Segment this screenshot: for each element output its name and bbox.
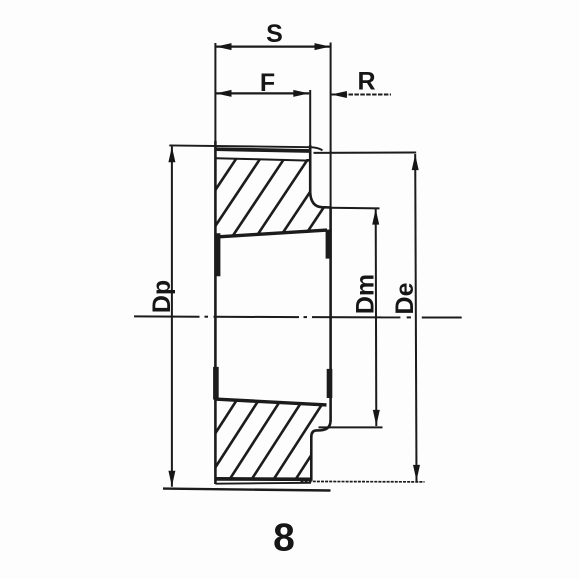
- svg-text:Dm: Dm: [352, 274, 380, 314]
- pulley bottom step face: [310, 436, 313, 481]
- wire right extension (S) / flange outer face: [330, 43, 332, 208]
- hatching lower section: [155, 368, 368, 494]
- arrowhead Dm top: [372, 209, 379, 225]
- wire De bottom extension: [301, 480, 425, 483]
- arrowhead Dm bottom: [373, 410, 380, 426]
- dimension R leader line: [331, 94, 391, 96]
- svg-text:8: 8: [273, 517, 295, 560]
- pulley bore taper line upper (thick): [217, 230, 327, 237]
- wire Dp bottom extension (long): [163, 489, 331, 491]
- wire Dm bottom extension: [319, 426, 383, 428]
- wire left extension / pulley left face: [214, 43, 216, 141]
- svg-text:R: R: [357, 68, 375, 96]
- arrowhead Dp top: [168, 147, 175, 163]
- arrowhead S right: [315, 43, 331, 50]
- arrowhead De bottom: [413, 465, 420, 481]
- arrowhead F right: [293, 90, 309, 97]
- pulley tooth face bottom (thick): [215, 477, 311, 481]
- dimension S line: [215, 45, 330, 47]
- svg-text:S: S: [266, 20, 283, 48]
- arrowhead R: [331, 91, 347, 98]
- pulley bore taper line lower (thick): [215, 399, 327, 405]
- hatching upper section: [150, 132, 398, 252]
- wire Dp top extension / pitch line: [169, 145, 322, 150]
- pulley rim inner line bottom: [215, 482, 311, 485]
- dimension De line: [415, 154, 416, 481]
- pulley tooth face top (thick): [215, 149, 310, 151]
- bushing edge bar lower-left: [213, 367, 219, 400]
- pulley top step fillet: [310, 193, 330, 208]
- dimension F line: [215, 92, 309, 94]
- dimension Dm line: [375, 209, 378, 426]
- arrowhead S left: [216, 43, 232, 50]
- wire Dm top extension: [331, 207, 380, 210]
- pulley bottom step fillet: [311, 420, 330, 437]
- svg-text:De: De: [391, 282, 419, 314]
- pulley rim inner line top: [216, 158, 309, 160]
- bushing edge bar upper-right: [326, 230, 332, 259]
- wire De top extension: [314, 152, 417, 154]
- dimension Dp line: [171, 146, 173, 487]
- arrowhead De top: [412, 154, 419, 170]
- wire F extension / hub step face: [309, 90, 311, 145]
- svg-text:Dp: Dp: [148, 280, 176, 313]
- bushing edge bar lower-right: [327, 369, 333, 398]
- svg-text:F: F: [260, 69, 275, 97]
- arrowhead Dp bottom: [168, 471, 175, 487]
- arrowhead F left: [216, 90, 232, 97]
- wire centerline axis (dash-dot): [134, 316, 462, 317]
- bushing edge bar upper-left: [215, 233, 221, 276]
